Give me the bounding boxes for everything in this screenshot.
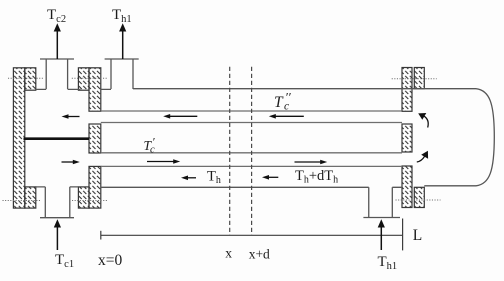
dotted centerline through top tube-sheet flange — [72, 77, 108, 79]
arrow left shell bottom T_h — [181, 176, 196, 181]
nozzle T_h1 top outline — [101, 59, 139, 89]
lower tube top wall — [101, 152, 402, 154]
right tube sheet upper segment — [402, 68, 412, 112]
arrow left in upper tube (left) — [163, 114, 197, 119]
top flange plate left of tube sheet — [78, 68, 89, 90]
dashed line at x — [229, 67, 231, 236]
svg-text:T: T — [274, 94, 284, 111]
arrow up T_h1 top — [119, 23, 126, 59]
svg-text:c: c — [150, 145, 155, 156]
arrow up T_h1 bottom — [378, 219, 385, 250]
arrow left in header upper chamber — [62, 114, 80, 119]
pass partition plate (thick) — [24, 137, 90, 140]
arrow right in lower tube (left) — [147, 159, 180, 164]
arrow up T_c2 — [54, 23, 61, 59]
axis baseline — [101, 234, 403, 236]
right tube sheet lower segment — [402, 166, 412, 208]
nozzle T_h1 bottom outline — [363, 187, 400, 217]
right end cap outline — [424, 89, 494, 186]
right tube sheet middle segment — [402, 124, 412, 152]
svg-text:Th+dTh: Th+dTh — [295, 168, 338, 186]
shell bottom wall — [101, 186, 402, 188]
upper tube bottom wall — [101, 122, 402, 124]
dotted centerline through bottom-right flange — [396, 199, 441, 201]
curved arrow lower (U-turn out of lower tube) — [417, 151, 428, 162]
axis tick at L — [402, 219, 404, 251]
svg-text:x+d: x+d — [249, 247, 270, 262]
dotted centerline through top-left flanges — [8, 77, 43, 79]
shell top wall — [133, 88, 476, 90]
nozzle T_c2 outline — [35, 59, 80, 89]
dashed line at x+d — [251, 67, 253, 236]
header bottom segments — [35, 186, 78, 188]
arrow left shell bottom T_h+dT_h — [262, 175, 278, 180]
top-left flange plate on cap — [25, 68, 36, 90]
nozzle T_c1 bottom outline — [40, 187, 74, 218]
dotted centerline through bottom tube-sheet flange — [72, 200, 108, 202]
lower tube bottom wall — [101, 165, 402, 167]
arrow right in lower tube (right) — [295, 160, 328, 165]
svg-text:x: x — [225, 246, 232, 261]
svg-text:L: L — [413, 227, 422, 244]
left tube sheet middle segment — [89, 124, 101, 153]
axis tick at x=0 — [100, 231, 102, 240]
bottom flange plate left of tube sheet — [78, 187, 89, 208]
svg-text:c: c — [284, 101, 289, 113]
left tube sheet lower segment — [89, 166, 101, 208]
top-right flange plate — [414, 68, 424, 89]
bottom-left flange plate on cap — [25, 187, 36, 208]
curved arrow upper (U-turn into upper tube) — [418, 113, 428, 128]
upper tube top wall — [101, 110, 402, 112]
dotted centerline through bottom-left flanges — [3, 200, 42, 202]
left tube sheet upper segment — [89, 68, 101, 111]
left end cap plate (hatched vertical bar) — [13, 68, 24, 208]
arrow right in header lower chamber — [62, 160, 80, 165]
dotted centerline through top-right flange — [392, 78, 437, 80]
bottom-right flange plate — [414, 187, 424, 207]
svg-text:x=0: x=0 — [98, 252, 122, 269]
arrow up T_c1 — [54, 219, 61, 250]
arrow left in upper tube (right) — [269, 114, 304, 119]
